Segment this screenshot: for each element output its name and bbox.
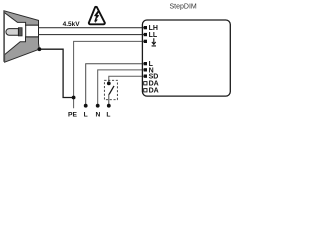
terminal dot L switched [107,104,111,108]
lamp LA1 reflector top wall [4,11,38,25]
terminal dot L [84,104,88,108]
earth symbol [152,38,156,46]
junction dot PE [72,96,76,100]
svg-text:PE: PE [68,112,77,118]
lamp LA1 reflector bottom wall [5,37,40,62]
terminal SD [144,75,147,78]
terminal DA 1 [144,82,147,85]
switch S1 blade [109,86,114,95]
svg-text:N: N [96,112,101,118]
terminal N [144,68,147,71]
wire PE vertical and earth wire to box [74,41,144,108]
warning triangle W1 lightning bolt [94,11,99,23]
ballast box U1 [142,20,230,96]
svg-text:DA: DA [149,81,159,88]
wire switch to bottom L [108,94,110,106]
terminal dot N [96,104,100,108]
junction dot lamp shell [38,47,42,51]
svg-text:StepDIM: StepDIM [170,3,197,10]
wire shell/earth from lamp [39,49,73,97]
terminal DA 2 [144,89,147,92]
terminal earth [144,40,147,43]
wire LH lamp to box [39,27,145,29]
terminal LL [144,33,147,36]
lamp LA1 mouth line [3,10,5,61]
switch S1 top contact dot [107,82,111,86]
svg-text:DA: DA [149,88,159,95]
svg-text:L: L [84,112,88,118]
switch S1 dashed enclosure [104,80,117,99]
terminal L [144,62,147,65]
wire LL lamp to box [39,34,145,36]
svg-text:SD: SD [149,74,159,81]
wire N box to bottom [98,70,144,106]
svg-text:4.5kV: 4.5kV [63,21,81,28]
wire L box to bottom [86,64,144,106]
lamp LA1 capsule [6,29,19,36]
svg-text:L: L [106,112,110,118]
terminal LH [144,26,147,29]
warning triangle W1 [89,7,105,24]
wire SD box to switch [109,76,144,83]
lamp LA1 capsule pinch [18,28,22,36]
svg-text:LL: LL [149,32,158,39]
lamp LA1 socket [26,25,39,37]
